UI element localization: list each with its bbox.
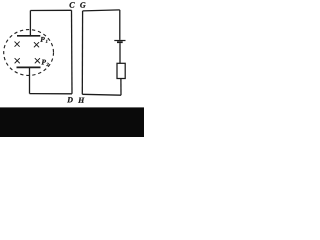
flux mark x1 [15,42,20,47]
wire bottom rail right loop [82,93,121,96]
node P2 sub [46,63,48,66]
resistor R [117,63,125,78]
bottom black bar [0,107,144,137]
wire C-D vertical [71,10,74,94]
battery long plate [114,40,125,42]
wire bottom plate down [29,67,31,93]
wire bottom rail left loop [30,93,73,95]
field region dashed circle [4,30,54,76]
node P1 label [40,37,45,42]
wire battery to resistor [119,43,121,63]
wire G-H vertical [81,11,83,94]
wire top rail left loop [30,9,71,11]
flux mark x2 [34,42,39,47]
wire right column upper [119,10,121,40]
node C label [69,2,74,8]
flux mark x3 [15,58,20,63]
battery short plate [117,41,123,43]
node H label [78,98,84,103]
wire resistor to bottom rail [120,79,122,96]
node D label [67,97,73,102]
flux mark x4 [35,58,40,63]
wire top rail right loop [83,10,120,11]
capacitor bottom plate [17,66,41,68]
node P1 sub [46,40,48,43]
node P2 label [41,60,46,65]
capacitor top plate [17,35,40,37]
node G label [80,2,85,7]
wire top plate up [29,11,31,36]
